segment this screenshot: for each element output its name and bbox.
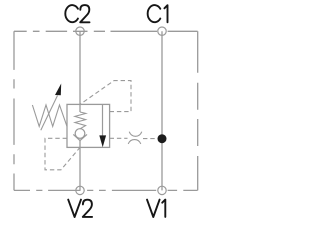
pilot line from box to orifice (dashed) (110, 137, 128, 139)
check valve seat (73, 134, 87, 140)
boundary right edge (dashed) (197, 31, 199, 190)
boundary top edge (dashed) (14, 30, 198, 32)
adjustable spring (left of box) (32, 105, 67, 126)
check valve ball (75, 129, 85, 139)
valve body box (67, 104, 110, 147)
pilot line loop to spring chamber (dashed, bottom-left) (45, 138, 80, 170)
adjustment arrow shaft (41, 96, 58, 131)
label V1 (147, 200, 165, 217)
port C2 (76, 27, 84, 35)
pilot line loop to piston (dashed, top-right) (80, 81, 131, 112)
adjustment arrow head (55, 84, 61, 96)
flow arrow head (99, 135, 106, 147)
port C1 (158, 27, 166, 35)
boundary bottom edge (dashed) (14, 189, 198, 191)
orifice upper arc (129, 132, 142, 137)
wire C2-V2 upper segment (79, 31, 81, 112)
wire C2-V2 lower segment (79, 140, 81, 190)
junction dot on C1-V1 line (158, 134, 167, 143)
flow arrow line (inside box, right path) (102, 104, 104, 137)
spring (inside box, above check valve) (75, 112, 86, 129)
port V1 (158, 186, 166, 194)
label C1 (148, 5, 168, 22)
label V2 (68, 200, 92, 217)
pilot line from orifice to V1 line (dashed) (143, 138, 158, 140)
label C2 (65, 5, 89, 22)
orifice lower arc (128, 140, 141, 144)
wire C1-V1 (161, 31, 163, 190)
boundary left edge (dashed) (13, 31, 15, 190)
port V2 (76, 186, 84, 194)
